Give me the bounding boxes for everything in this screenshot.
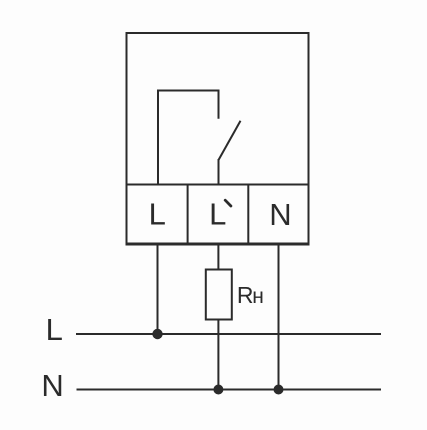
L bus line <box>76 333 381 335</box>
device box U1 outline <box>127 33 309 244</box>
svg-text:L: L <box>149 197 166 232</box>
svg-text:L: L <box>46 312 63 347</box>
svg-text:N: N <box>269 197 291 232</box>
terminal strip top edge <box>127 184 309 186</box>
terminal divider L/L` <box>187 185 189 245</box>
svg-text:N: N <box>41 368 63 403</box>
resistor Rн (load) body <box>206 270 232 320</box>
relay switch contact blade S1 <box>219 121 241 160</box>
junction dot: resistor to N bus <box>213 385 223 395</box>
wire terminal L` down to resistor <box>217 244 219 270</box>
svg-text:L: L <box>209 197 226 232</box>
svg-text:н: н <box>252 285 264 308</box>
junction dot: L wire to L bus <box>152 329 162 339</box>
wire terminal L down to L bus <box>157 244 159 334</box>
N bus line <box>77 389 382 391</box>
wire from terminal L up to relay contact <box>158 91 219 185</box>
svg-text:R: R <box>237 282 254 308</box>
wire resistor down to N bus <box>217 320 219 390</box>
wire from blade down to terminal L` <box>218 159 220 185</box>
terminal label L` grave accent <box>225 200 231 206</box>
wire terminal N down to N bus <box>278 244 280 390</box>
terminal strip bottom edge <box>126 243 310 246</box>
terminal divider L`/N <box>247 185 249 245</box>
junction dot: N wire to N bus <box>274 385 284 395</box>
